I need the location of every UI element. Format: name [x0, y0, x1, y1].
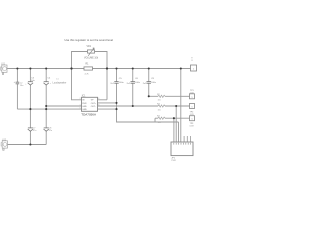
capacitor C3 — [25, 77, 35, 85]
resistor R2 row 1 — [157, 94, 165, 102]
svg-text:C6: C6 — [135, 78, 139, 80]
capacitor C6 — [127, 78, 141, 85]
wire: row 1 — [149, 95, 190, 97]
svg-text:0.5V: 0.5V — [190, 125, 195, 127]
svg-text:GND: GND — [82, 109, 87, 111]
svg-text:C9: C9 — [151, 78, 155, 80]
svg-text:PWR: PWR — [171, 160, 176, 162]
terminal box 9V (top right) — [191, 58, 197, 71]
capacitor C7 — [28, 127, 37, 132]
svg-text:TDA7056A: TDA7056A — [81, 112, 96, 116]
wire: IC pin VP to rail via x107 — [98, 69, 108, 100]
svg-text:+: + — [25, 83, 27, 85]
svg-text:5: 5 — [80, 108, 81, 110]
svg-text:100n: 100n — [119, 82, 125, 84]
resistor R4 row 3 — [157, 116, 165, 124]
IC U1 TDA7056A — [80, 96, 100, 117]
connector JP1 — [171, 142, 193, 162]
wire: top rail — [7, 68, 191, 70]
junction dots — [16, 67, 182, 145]
svg-text:C4: C4 — [48, 78, 52, 80]
wire: IC pin OUT- / row 2 to box2 — [98, 105, 190, 107]
svg-text:+: + — [14, 81, 16, 84]
trimmer VR1 — [84, 46, 99, 60]
terminal box TP3 — [190, 116, 195, 128]
svg-text:OUT-: OUT- — [91, 106, 96, 108]
svg-text:10u: 10u — [20, 85, 24, 87]
svg-text:1: 1 — [80, 104, 81, 106]
wire: vertical x179.5 rail to connector — [180, 69, 182, 143]
terminal box TP1 — [190, 90, 195, 99]
wire: line B to IC pin 3 — [46, 105, 81, 107]
capacitor C2 — [14, 81, 25, 87]
wire: vertical x177.3 y122 to connector — [178, 122, 180, 142]
capacitor C9 — [143, 78, 157, 85]
svg-text:C1: C1 — [56, 78, 59, 80]
resistor R3 row 2 — [157, 104, 165, 112]
capacitor C5 — [110, 78, 124, 85]
wire: IC pin OUT+ to x116.5 — [98, 102, 117, 104]
svg-text:OUT+: OUT+ — [91, 103, 97, 105]
wire: bottom rail — [7, 144, 46, 146]
wire: vertical drop x71.5 to IC pin 1 — [72, 69, 82, 100]
wire: connector stub pins — [184, 136, 190, 142]
loudspeaker LS2 — [1, 139, 7, 150]
capacitor C4 — [44, 78, 67, 86]
svg-text:SVR: SVR — [82, 103, 87, 105]
svg-text:100n: 100n — [135, 82, 141, 84]
svg-text:Use this regulator to set the: Use this regulator to set the sound leve… — [65, 38, 114, 42]
wire: row 3 — [155, 118, 190, 122]
wire: vertical drop x44 (rail to bottom rail) — [45, 69, 47, 145]
svg-text:Loudspeaker: Loudspeaker — [53, 82, 67, 85]
svg-text:2u2: 2u2 — [143, 83, 147, 85]
wire: vertical drop x30.4 (rail to bottom rail) — [29, 69, 31, 145]
svg-text:2: 2 — [80, 98, 81, 100]
wire: VR loop right — [95, 52, 107, 69]
wire: IC pin GND to x116.5 — [98, 108, 117, 110]
svg-text:4.7k: 4.7k — [85, 74, 90, 76]
svg-text:10k: 10k — [158, 100, 161, 102]
svg-text:2u2: 2u2 — [127, 83, 131, 85]
wire: vertical x172.9 row3 to connector — [173, 118, 175, 142]
svg-text:V: V — [191, 60, 193, 62]
resistor R1 (series on rail) — [84, 64, 93, 76]
svg-text:47u: 47u — [33, 130, 37, 132]
wire: vertical drop x17.4 to line A — [16, 69, 18, 110]
svg-text:47u: 47u — [49, 130, 53, 132]
wire: line A to IC pin 4 — [17, 108, 81, 110]
svg-text:10k: 10k — [158, 109, 161, 111]
wire: vertical x116.5 rail to y122 — [117, 69, 179, 123]
svg-text:C5: C5 — [119, 78, 123, 80]
wire: vertical x148.75 rail to row1 — [148, 69, 150, 97]
wire: VR loop left — [72, 52, 88, 69]
wire: vertical x175.2 row2 to connector — [175, 106, 177, 142]
terminal box TP2 — [190, 104, 195, 117]
svg-text:100n: 100n — [151, 82, 157, 84]
svg-text:10k: 10k — [158, 122, 161, 124]
svg-text:VR1: VR1 — [87, 46, 92, 48]
loudspeaker LS1 — [1, 63, 7, 74]
capacitor C8 — [44, 127, 53, 132]
wire: vertical x132.75 rail to row2 — [132, 69, 134, 107]
svg-text:VOLUME 10k: VOLUME 10k — [84, 58, 99, 60]
svg-text:R1: R1 — [86, 64, 90, 66]
svg-text:2u2: 2u2 — [110, 83, 114, 85]
svg-text:GND: GND — [82, 106, 87, 108]
